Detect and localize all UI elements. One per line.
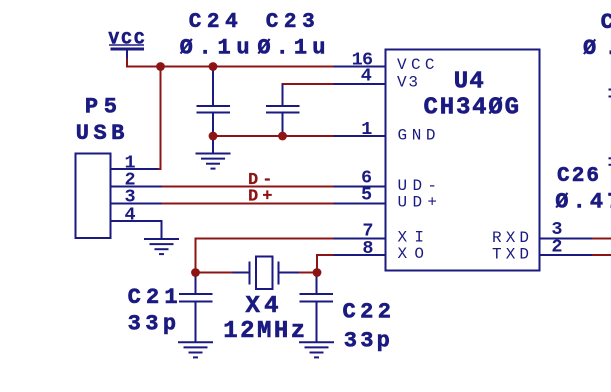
svg-text:C22: C22 xyxy=(343,300,392,325)
svg-text:V3: V3 xyxy=(397,73,418,91)
svg-text:VCC: VCC xyxy=(109,30,145,50)
svg-text:4: 4 xyxy=(125,204,136,225)
svg-text:CH34ØG: CH34ØG xyxy=(424,94,520,121)
svg-text:8: 8 xyxy=(362,238,373,259)
svg-text:Ø.1u: Ø.1u xyxy=(180,36,250,61)
svg-text:33p: 33p xyxy=(128,311,177,336)
svg-text:C21: C21 xyxy=(128,285,178,310)
svg-text:C: C xyxy=(601,10,611,35)
svg-text:Ø.: Ø. xyxy=(583,36,611,61)
svg-text:1: 1 xyxy=(361,119,372,140)
svg-text:GND: GND xyxy=(398,127,436,145)
svg-text:33p: 33p xyxy=(344,329,390,354)
svg-text:Ø.47: Ø.47 xyxy=(555,190,611,215)
svg-text:UD-: UD- xyxy=(398,177,438,195)
svg-text:12MHz: 12MHz xyxy=(223,318,305,345)
svg-text:Ø.1u: Ø.1u xyxy=(257,36,325,61)
svg-text:2: 2 xyxy=(551,236,562,257)
svg-text:X4: X4 xyxy=(246,293,279,320)
svg-text:4: 4 xyxy=(361,65,372,86)
svg-text:VCC: VCC xyxy=(397,56,435,74)
svg-text:U4: U4 xyxy=(454,69,484,96)
svg-text:USB: USB xyxy=(76,121,125,146)
svg-text:P5: P5 xyxy=(85,95,117,120)
svg-text:XO: XO xyxy=(398,245,425,263)
svg-text:TXD: TXD xyxy=(492,245,529,263)
svg-text:C26: C26 xyxy=(557,165,599,188)
svg-text:C24: C24 xyxy=(189,11,238,34)
svg-text:5: 5 xyxy=(361,184,372,205)
svg-text:XI: XI xyxy=(398,229,425,247)
svg-text:C23: C23 xyxy=(266,11,315,34)
svg-text:RXD: RXD xyxy=(492,229,529,247)
svg-text:UD+: UD+ xyxy=(398,194,438,212)
